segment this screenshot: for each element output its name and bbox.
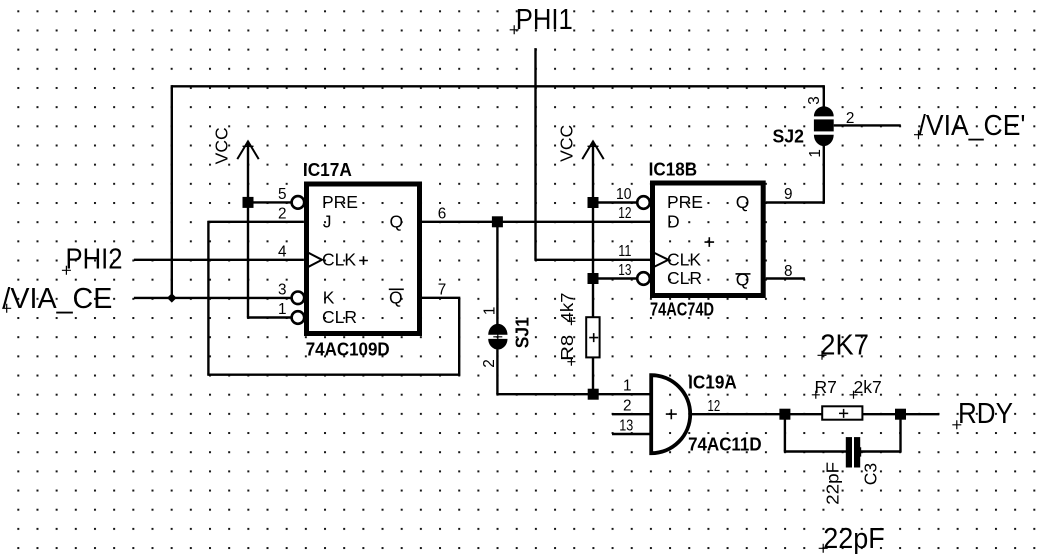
IC17A pin 1 bubble [292,311,305,324]
svg-text:SJ1: SJ1 [512,317,533,348]
junction node IC18B CLR/VCC [588,273,599,284]
wire CLR pin 13 [593,277,637,279]
junction node /VIA_CE diamond [167,293,177,302]
capacitor C3 plates [846,437,866,467]
svg-text:13: 13 [618,262,631,279]
IC17A reference label [303,159,352,180]
wire gate output to RDY [690,413,939,415]
svg-text:2: 2 [481,359,498,368]
resistor R7 value label 2k7 [850,377,882,399]
svg-text:K: K [323,288,335,308]
svg-text:74AC74D: 74AC74D [650,299,714,320]
svg-text:CLK: CLK [322,250,356,270]
IC18B pin 13 number [618,262,631,279]
resistor R8 body [586,317,599,357]
svg-text:PRE: PRE [667,192,703,212]
wire C3 right vertical [899,413,901,453]
net label RDY [952,398,1013,430]
wire left vertical to /VIA_CE [171,85,173,298]
svg-text:J: J [323,212,332,232]
svg-text:R8: R8 [557,335,577,361]
IC17A pin 1 number [278,301,287,318]
svg-text:7: 7 [438,281,447,298]
IC17A pin 5 number [278,186,287,203]
svg-text:RDY: RDY [958,398,1013,430]
IC18B pin 10 number [616,186,632,203]
svg-text:74AC109D: 74AC109D [306,339,390,360]
capacitor C3 value label 22pF [823,462,843,505]
svg-text:4k7: 4k7 [557,293,577,323]
IC18B value label 74AC74D [650,299,714,320]
junction node R7 right [895,409,906,420]
wire SJ2 pin 1 vertical [823,145,825,204]
junction node R7 left [779,409,790,420]
IC17A pin 4 number [278,243,287,260]
solder jumper SJ2 [814,106,834,146]
svg-text:3: 3 [806,96,823,105]
IC19A pin 13 number [619,418,633,435]
resistor R7 body [822,406,862,419]
SJ2 pin 3 number [806,96,823,105]
net label PHI1 [510,4,573,36]
svg-text:C3: C3 [861,463,881,485]
wire R8 bottom [592,357,594,394]
svg-text:2k7: 2k7 [854,377,882,397]
net label /VIA_CE [2,283,112,315]
value label 2K7 [818,330,869,362]
svg-text:1: 1 [807,149,824,158]
junction node IC17A PRE/VCC [243,197,254,208]
IC17A pin 7 number [438,281,447,298]
svg-text:12: 12 [618,205,631,222]
svg-text:2: 2 [846,110,855,127]
wire SJ1 to gate pin 1 [496,393,651,395]
svg-text:Q: Q [736,269,750,289]
SJ2 pin 1 number [807,149,824,158]
wire node to SJ1 pin 1 [496,222,498,324]
wire Qbar pin 7 [422,297,461,299]
svg-text:12: 12 [708,398,721,415]
IC18B pin 13 bubble [637,272,650,285]
power symbol VCC left [212,127,259,164]
SJ1 reference label [512,317,533,348]
wire feedback bottom [207,374,459,376]
IC17A pin 6 number [438,205,447,222]
IC18B 74AC74D D flip-flop body [653,183,764,296]
svg-text:22pF: 22pF [823,523,885,555]
svg-text:IC18B: IC18B [649,159,698,180]
svg-text:VCC: VCC [212,127,232,164]
svg-text:Q: Q [736,192,750,212]
svg-text:4: 4 [278,243,287,260]
IC18B pin 10 bubble [637,196,650,209]
wire SJ2 pin 3 vertical [823,85,825,106]
svg-text:VCC: VCC [557,125,577,162]
resistor R7 name label [812,377,837,399]
IC17A value label 74AC109D [306,339,390,360]
svg-text:SJ2: SJ2 [773,126,805,147]
IC19A value label 74AC11D [688,434,762,455]
svg-text:PHI2: PHI2 [66,244,123,276]
wire top horizontal net [172,85,824,87]
svg-text:22pF: 22pF [823,462,843,505]
SJ2 pin 2 number [846,110,855,127]
IC17A pin 5 bubble [292,196,305,209]
svg-text:2K7: 2K7 [820,330,869,362]
wire C3 bottom left [784,450,847,452]
junction node Q/IC17A [492,216,503,227]
svg-text:1: 1 [623,378,632,395]
svg-text:6: 6 [438,205,447,222]
wire J pin 2 [208,221,304,223]
SJ2 reference label [773,126,805,147]
svg-text:8: 8 [784,263,793,280]
wire VCC2 vertical [592,141,594,317]
IC18B reference label [649,159,698,180]
wire CLR pin 1 [247,316,292,318]
IC18B pin 9 number [784,186,793,203]
wire PRE pin 5 [248,201,292,203]
capacitor C3 name label [861,463,881,485]
svg-text:IC17A: IC17A [303,159,352,180]
wire Q pin 9 [766,201,824,203]
solder jumper SJ1 [488,324,507,350]
SJ1 pin 1 number [481,307,498,316]
IC19A pin 2 number [623,398,632,415]
IC18B pin 12 number [618,205,631,222]
svg-text:1: 1 [278,301,287,318]
wire feedback right vertical [458,298,460,376]
wire SJ2 pin 2 to /VIA_CE' [834,124,901,126]
junction node IC18B PRE/VCC [588,197,599,208]
svg-text:CLR: CLR [322,307,357,327]
IC19A reference label [688,371,737,392]
svg-text:11: 11 [618,243,631,260]
svg-text:2: 2 [278,205,287,222]
IC17A pin 3 bubble [292,292,305,305]
IC18B pin 8 number [784,263,793,280]
IC19A pin 1 number [623,378,632,395]
wire feedback left vertical [207,221,209,375]
wire Q to D [422,221,650,223]
IC17A pin 3 number [278,281,287,298]
svg-text:/VIA_CE: /VIA_CE [2,283,112,315]
wire Qbar pin 8 stub [766,277,805,279]
wire PHI2 to CLK pin 4 [134,259,304,261]
IC17A pin 2 number [278,205,287,222]
IC17A 74AC109D JK flip-flop body [307,184,420,334]
wire PHI1 vertical [534,48,536,260]
power symbol VCC right [557,125,604,162]
svg-text:3: 3 [278,281,287,298]
IC19A 74AC11D AND gate body [651,375,690,453]
wire PRE pin 10 [593,201,637,203]
svg-text:Q: Q [390,212,404,232]
net label PHI2 [62,244,123,276]
junction node R8/SJ1/gate [588,389,599,400]
resistor R8 name label [557,335,577,366]
svg-text:13: 13 [619,418,633,435]
svg-text:IC19A: IC19A [688,371,737,392]
svg-text:74AC11D: 74AC11D [688,434,762,455]
wire gate pin 13 stub [612,433,651,435]
svg-text:PRE: PRE [322,192,358,212]
SJ1 pin 2 number [481,359,498,368]
IC18B pin 11 number [618,243,631,260]
svg-text:9: 9 [784,186,793,203]
wire PHI1 to CLK pin 11 [534,259,650,261]
svg-text:Q: Q [389,288,403,308]
svg-text:/VIA_CE': /VIA_CE' [919,110,1026,142]
svg-text:D: D [667,212,680,232]
svg-text:2: 2 [623,398,632,415]
wire SJ1 pin 2 down [496,349,498,394]
svg-text:CLR: CLR [667,268,702,288]
wire C3 bottom right [859,450,900,452]
wire VCC1 vertical [247,141,249,317]
svg-text:5: 5 [278,186,287,203]
svg-text:CLK: CLK [667,250,701,270]
value label 22pF [819,523,885,555]
resistor R8 value label 4k7 [557,293,577,326]
IC19A pin 12 number [708,398,721,415]
svg-text:PHI1: PHI1 [516,4,573,36]
svg-text:1: 1 [481,307,498,316]
wire gate pin 2 stub [612,413,651,415]
net label /VIA_CE' [914,110,1026,142]
wire /VIA_CE to K pin [134,297,292,299]
svg-text:10: 10 [616,186,632,203]
svg-text:R7: R7 [815,377,837,397]
wire C3 left vertical [784,413,786,451]
